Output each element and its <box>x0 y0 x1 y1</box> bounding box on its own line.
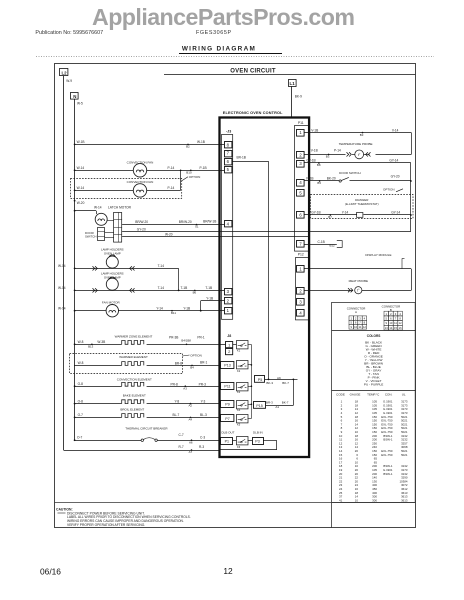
svg-text:BK-7: BK-7 <box>282 381 289 385</box>
svg-text:Y-1B: Y-1B <box>183 306 190 310</box>
svg-text:12: 12 <box>399 321 402 325</box>
svg-text:W-14: W-14 <box>58 286 66 290</box>
svg-text:10: 10 <box>355 498 359 502</box>
svg-text:W-1B: W-1B <box>197 140 205 144</box>
svg-text:W-8: W-8 <box>78 340 84 344</box>
svg-text:12: 12 <box>363 325 366 329</box>
svg-text:BSW-1: BSW-1 <box>383 438 392 442</box>
svg-text:A2: A2 <box>189 404 193 408</box>
svg-text:A6: A6 <box>189 440 193 444</box>
svg-text:EXL-750: EXL-750 <box>381 453 393 457</box>
svg-text:P-14: P-14 <box>334 149 341 153</box>
svg-text:W-14: W-14 <box>77 186 85 190</box>
svg-text:P9: P9 <box>225 403 229 407</box>
svg-text:10: 10 <box>354 325 357 329</box>
svg-text:B5: B5 <box>317 181 321 185</box>
svg-text:P3: P3 <box>255 439 259 443</box>
svg-text:GY-14: GY-14 <box>389 159 398 163</box>
svg-text:10: 10 <box>389 321 392 325</box>
svg-text:MEAT PROBE: MEAT PROBE <box>349 279 368 283</box>
svg-text:L2: L2 <box>61 71 67 76</box>
svg-text:BR-3: BR-3 <box>266 401 273 405</box>
svg-text:PR-8: PR-8 <box>171 382 178 386</box>
svg-text:WARMER ZONE ELEMENT: WARMER ZONE ELEMENT <box>115 334 153 338</box>
svg-text:CONVECTION FAN: CONVECTION FAN <box>127 161 154 165</box>
svg-text:OPTION: OPTION <box>190 353 202 357</box>
svg-text:W-20: W-20 <box>165 232 173 236</box>
svg-text:W-5: W-5 <box>77 102 83 106</box>
svg-text:B3: B3 <box>326 155 330 159</box>
svg-text:R-7: R-7 <box>179 445 184 449</box>
svg-text:W-14: W-14 <box>77 166 85 170</box>
svg-text:BK-7: BK-7 <box>282 401 289 405</box>
svg-text:K3: K3 <box>237 390 241 394</box>
svg-text:P12: P12 <box>298 253 304 257</box>
svg-text:Y-14: Y-14 <box>342 211 349 215</box>
svg-text:Y-14: Y-14 <box>156 306 163 310</box>
svg-text:WIRING DIAGRAM: WIRING DIAGRAM <box>182 45 256 52</box>
svg-text:K5: K5 <box>237 423 241 427</box>
svg-text:W-1B: W-1B <box>77 140 85 144</box>
svg-text:11: 11 <box>359 325 362 329</box>
svg-text:BR/W-1B: BR/W-1B <box>203 220 216 224</box>
svg-text:T-14: T-14 <box>158 286 165 290</box>
svg-text:BL-7: BL-7 <box>173 413 180 417</box>
svg-text:TEMP.°C: TEMP.°C <box>367 393 380 397</box>
svg-text:P1: P1 <box>225 439 229 443</box>
svg-text:300: 300 <box>372 498 377 502</box>
svg-text:BSW-1: BSW-1 <box>383 472 392 476</box>
svg-text:C-1B: C-1B <box>318 240 325 244</box>
svg-text:(E-LIMIT THERMOSTAT): (E-LIMIT THERMOSTAT) <box>345 202 379 206</box>
svg-text:P-14: P-14 <box>168 166 175 170</box>
svg-text:GY-1B: GY-1B <box>311 211 320 215</box>
svg-text:K4: K4 <box>237 408 241 412</box>
svg-text:W-20: W-20 <box>77 201 85 205</box>
svg-text:B13: B13 <box>88 345 94 349</box>
svg-text:5021: 5021 <box>401 453 408 457</box>
svg-text:FAN MOTOR: FAN MOTOR <box>102 300 121 304</box>
svg-text:B3: B3 <box>360 133 364 137</box>
svg-text:CONVECTION ELEMENT: CONVECTION ELEMENT <box>117 377 152 381</box>
svg-text:Y-1B: Y-1B <box>206 297 213 301</box>
svg-text:P11: P11 <box>298 121 304 125</box>
svg-text:BL-3: BL-3 <box>200 413 207 417</box>
svg-text:UL: UL <box>402 393 406 397</box>
svg-text:P5: P5 <box>258 378 262 382</box>
svg-text:P-1B: P-1B <box>200 166 207 170</box>
svg-text:Y-3: Y-3 <box>201 399 206 403</box>
svg-text:B: B <box>390 308 392 312</box>
svg-text:3613: 3613 <box>401 498 408 502</box>
svg-text:W-14: W-14 <box>58 306 66 310</box>
svg-text:N: N <box>73 94 76 99</box>
svg-text:15: 15 <box>394 326 397 330</box>
svg-text:T-1B: T-1B <box>181 286 188 290</box>
svg-text:K2: K2 <box>237 369 241 373</box>
svg-text:DOOR SWITCH: DOOR SWITCH <box>339 171 361 175</box>
svg-text:BK-3: BK-3 <box>266 381 273 385</box>
svg-text:B11: B11 <box>171 311 176 315</box>
svg-text:O-8: O-8 <box>78 399 84 403</box>
svg-text:R-3: R-3 <box>199 445 204 449</box>
svg-text:V-14: V-14 <box>392 128 399 132</box>
svg-text:BR/W-20: BR/W-20 <box>135 220 148 224</box>
svg-text:41: 41 <box>339 498 343 502</box>
svg-text:BK-20: BK-20 <box>327 177 336 181</box>
svg-text:L1: L1 <box>290 81 296 86</box>
svg-text:P13: P13 <box>224 363 230 367</box>
svg-text:SWITCH: SWITCH <box>85 235 96 239</box>
svg-text:T-1B: T-1B <box>205 286 212 290</box>
svg-text:B8: B8 <box>317 163 321 167</box>
svg-text:B4/1B8: B4/1B8 <box>181 338 191 342</box>
svg-text:W-3B: W-3B <box>97 340 105 344</box>
svg-text:C-3: C-3 <box>200 435 205 439</box>
svg-text:A: A <box>355 310 357 314</box>
svg-text:B4: B4 <box>190 366 194 370</box>
svg-text:BROIL ELEMENT: BROIL ELEMENT <box>120 407 144 411</box>
svg-text:THERMAL CIRCUIT BREAKER: THERMAL CIRCUIT BREAKER <box>125 427 168 431</box>
svg-text:O-7: O-7 <box>78 413 84 417</box>
svg-text:TEMPERATURE PROBE: TEMPERATURE PROBE <box>339 142 373 146</box>
svg-text:P-1B: P-1B <box>306 177 313 181</box>
svg-text:ELECTRONIC OVEN CONTROL: ELECTRONIC OVEN CONTROL <box>223 111 283 115</box>
svg-text:BR-8: BR-8 <box>175 362 182 366</box>
svg-text:13: 13 <box>385 326 388 330</box>
svg-text:VERIFY PROPER OPERATION AFTER: VERIFY PROPER OPERATION AFTER SERVICING. <box>67 523 145 527</box>
svg-text:OVEN CIRCUIT: OVEN CIRCUIT <box>230 68 276 74</box>
svg-text:14: 14 <box>389 326 392 330</box>
svg-text:A7: A7 <box>189 450 193 454</box>
svg-text:BR/W-20: BR/W-20 <box>179 220 192 224</box>
svg-text:AppliancePartsPros.com: AppliancePartsPros.com <box>92 4 354 30</box>
svg-text:CON.: CON. <box>385 393 393 397</box>
svg-text:PR-3B: PR-3B <box>169 336 178 340</box>
svg-text:COLORS: COLORS <box>367 334 381 338</box>
svg-text:J8: J8 <box>227 334 231 338</box>
svg-text:BR-1: BR-1 <box>200 361 207 365</box>
svg-text:P7: P7 <box>225 417 229 421</box>
svg-text:P-14: P-14 <box>168 186 175 190</box>
svg-text:A4: A4 <box>189 417 193 421</box>
svg-text:PR-3: PR-3 <box>199 382 206 386</box>
svg-text:A9: A9 <box>277 376 281 380</box>
svg-text:A1: A1 <box>275 405 279 409</box>
svg-text:W-9: W-9 <box>66 79 72 83</box>
svg-text:V-1B: V-1B <box>311 128 318 132</box>
svg-text:GY-1B: GY-1B <box>306 159 315 163</box>
svg-text:V-1B: V-1B <box>311 149 318 153</box>
svg-text:PR-1: PR-1 <box>197 336 204 340</box>
svg-text:BK-9: BK-9 <box>295 94 302 98</box>
svg-text:BAKE ELEMENT: BAKE ELEMENT <box>123 394 146 398</box>
svg-text:OVEN LAMP: OVEN LAMP <box>104 276 121 280</box>
svg-text:O-7: O-7 <box>77 436 83 440</box>
svg-text:FGES3065P: FGES3065P <box>196 30 232 36</box>
svg-text:12: 12 <box>223 566 233 576</box>
svg-text:DLB OUT: DLB OUT <box>222 431 235 435</box>
svg-text:B7: B7 <box>328 215 332 219</box>
svg-text:K6: K6 <box>237 445 241 449</box>
svg-text:LATCH MOTOR: LATCH MOTOR <box>108 206 132 210</box>
svg-text:GAUGE: GAUGE <box>350 393 361 397</box>
svg-text:S1: S1 <box>195 225 199 229</box>
svg-text:O-8: O-8 <box>78 382 84 386</box>
svg-text:C-7: C-7 <box>179 433 184 437</box>
svg-text:P15: P15 <box>256 404 262 408</box>
svg-text:PU - PURPLE: PU - PURPLE <box>364 382 383 386</box>
svg-text:GY-20: GY-20 <box>391 174 400 178</box>
svg-text:CODE: CODE <box>336 393 345 397</box>
svg-text:-J3: -J3 <box>226 130 231 134</box>
svg-text:GY-20: GY-20 <box>137 227 146 231</box>
svg-text:06/16: 06/16 <box>40 567 61 577</box>
svg-text:W-14: W-14 <box>58 264 66 268</box>
svg-text:DISPLAY MODULE: DISPLAY MODULE <box>365 253 391 257</box>
svg-text:DLB IN: DLB IN <box>253 431 263 435</box>
svg-text:Publication No: 5995676607: Publication No: 5995676607 <box>35 30 103 36</box>
svg-text:W-14: W-14 <box>94 206 102 210</box>
svg-text:P11: P11 <box>224 385 230 389</box>
svg-text:OPTION: OPTION <box>189 175 201 179</box>
svg-text:B6: B6 <box>193 290 197 294</box>
svg-text:B12: B12 <box>330 244 336 248</box>
svg-text:OPTION: OPTION <box>383 188 395 192</box>
svg-text:Y-8: Y-8 <box>175 399 180 403</box>
svg-text:K1: K1 <box>237 349 241 353</box>
svg-text:BR-1B: BR-1B <box>237 156 246 160</box>
svg-text:GY-14: GY-14 <box>391 211 400 215</box>
svg-text:T-14: T-14 <box>158 264 165 268</box>
svg-text:16: 16 <box>399 326 402 330</box>
svg-text:11: 11 <box>394 321 397 325</box>
svg-text:WARMER ELEMENT: WARMER ELEMENT <box>119 355 148 359</box>
svg-text:W-8: W-8 <box>78 361 84 365</box>
svg-text:A3: A3 <box>183 386 187 390</box>
